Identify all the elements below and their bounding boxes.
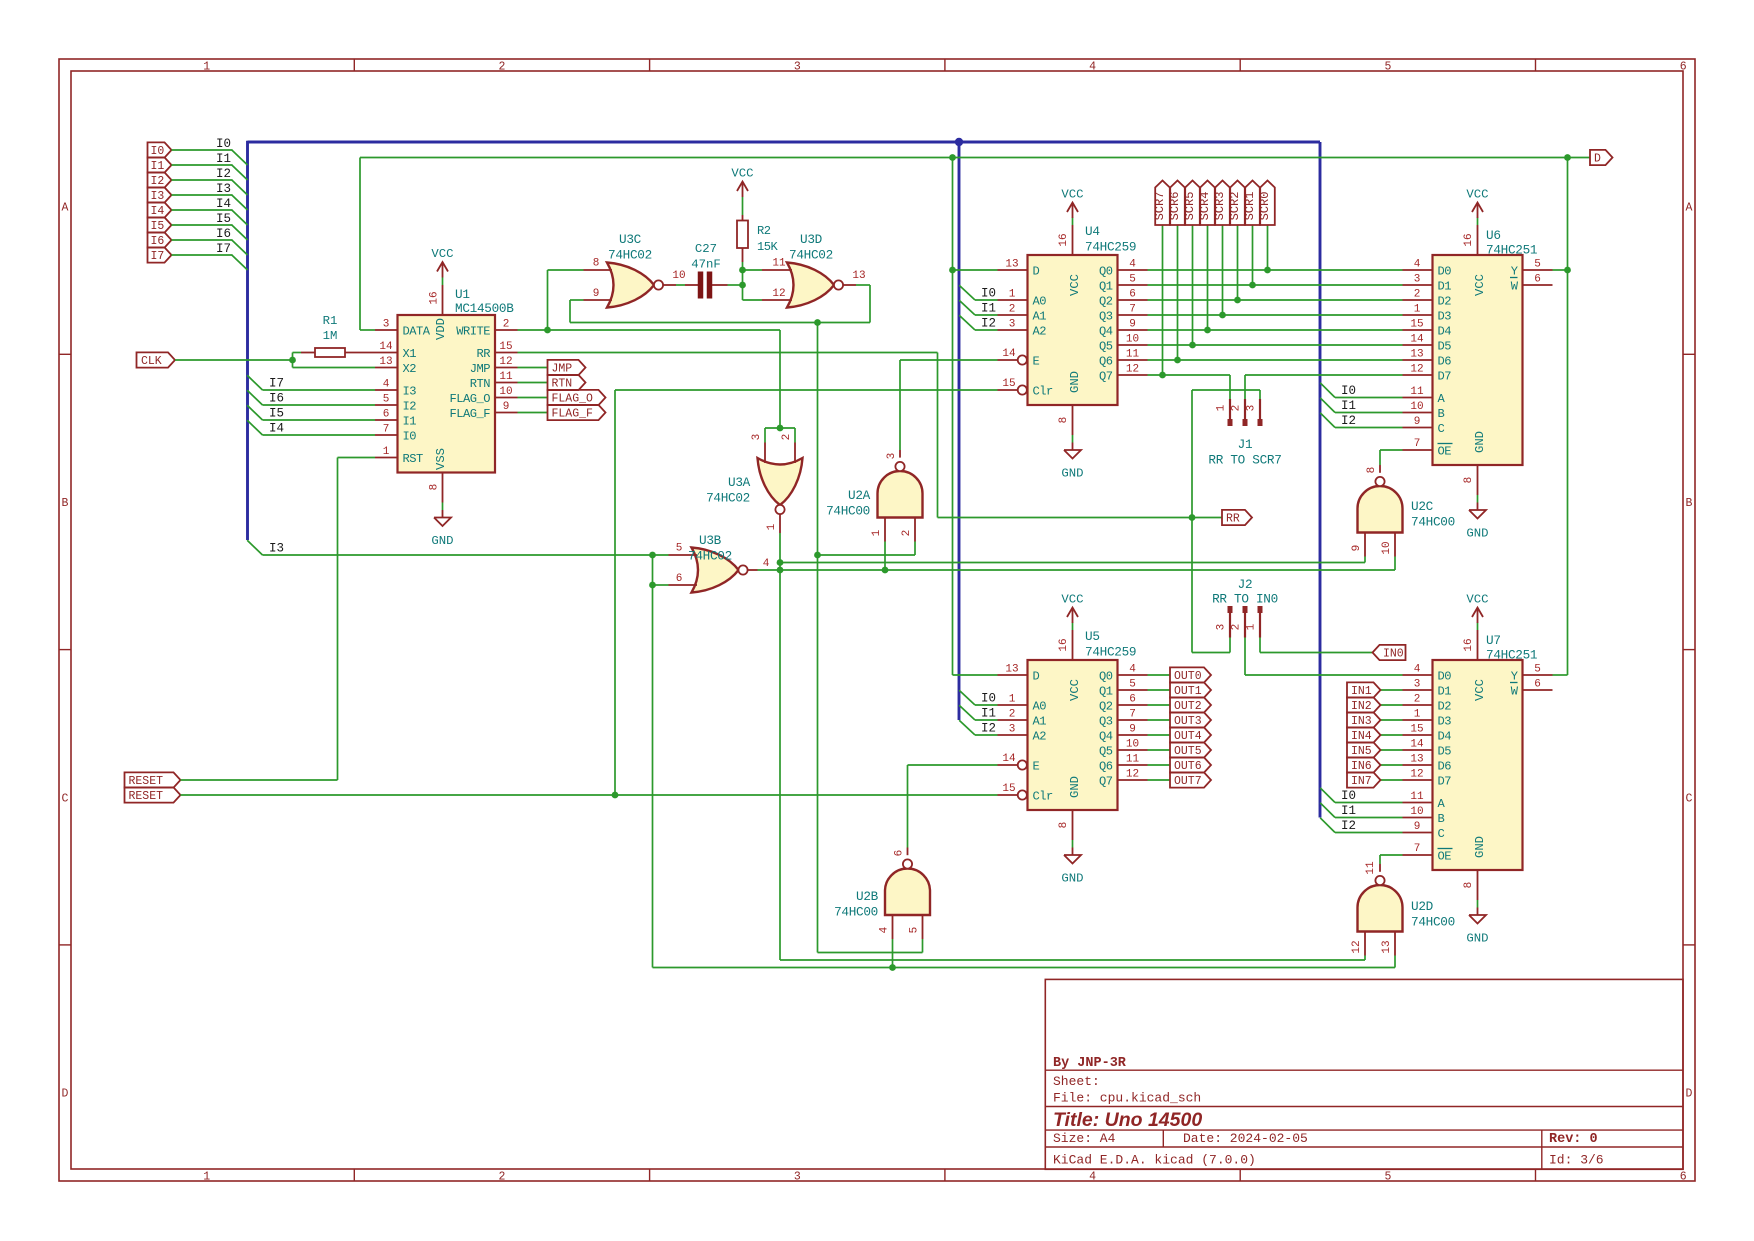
wire IN1 [1381,689,1403,691]
capacitor C27 [676,272,743,299]
wire bus tap U7 I0 [1320,788,1402,803]
svg-text:D3: D3 [1438,309,1452,323]
svg-text:SCR1: SCR1 [1243,192,1257,221]
ic U7 pin 9 C [1403,821,1445,841]
label R2 [757,224,771,238]
svg-text:5: 5 [1534,259,1541,271]
svg-text:D6: D6 [1438,759,1452,773]
wire I0 to bus [172,150,248,165]
svg-text:6: 6 [1680,1171,1687,1184]
svg-text:5: 5 [676,543,683,555]
svg-text:4: 4 [1089,61,1096,74]
ic U6 pin 3 D1 [1403,274,1452,294]
junction U6.Y [1564,267,1571,274]
svg-text:74HC259: 74HC259 [1085,645,1136,660]
svg-text:J2: J2 [1238,577,1253,592]
svg-text:47nF: 47nF [691,258,721,272]
label 47nF [691,258,721,272]
svg-text:Q2: Q2 [1099,699,1113,713]
ic U1 pin 15 RR [476,341,517,361]
junction SCR6 tap [1249,282,1256,289]
ic U5 pin 13 D [998,664,1040,684]
svg-text:OUT2: OUT2 [1174,700,1202,713]
ic U7 pin 14 D5 [1403,739,1452,759]
svg-text:11: 11 [1410,386,1424,398]
svg-text:Q1: Q1 [1099,279,1113,293]
wire feedback [570,285,870,323]
wire CLK split [293,353,376,368]
svg-text:B: B [1438,407,1445,421]
svg-text:I6: I6 [269,392,284,406]
hierarchical label OUT7 [1170,772,1211,788]
svg-text:OE: OE [1438,849,1452,863]
svg-text:KiCad E.D.A. kicad (7.0.0): KiCad E.D.A. kicad (7.0.0) [1053,1153,1256,1168]
svg-text:D1: D1 [1438,279,1452,293]
ic U4 pin 14 E [998,348,1040,368]
svg-text:16: 16 [1058,638,1070,651]
svg-text:IN6: IN6 [1351,760,1372,773]
svg-text:4: 4 [383,379,390,391]
svg-text:DATA: DATA [403,324,431,338]
svg-text:SCR0: SCR0 [1258,192,1272,221]
svg-text:10: 10 [1126,739,1139,751]
ic U5 pin 5 Q1 [1099,679,1148,699]
svg-text:8: 8 [593,258,600,270]
svg-text:74HC251: 74HC251 [1486,648,1537,663]
hierarchical label FLAG_O [548,390,606,406]
svg-text:15K: 15K [757,240,779,254]
svg-text:JMP: JMP [470,362,491,376]
svg-text:I5: I5 [269,407,284,421]
svg-text:4: 4 [1089,1171,1096,1184]
svg-text:10: 10 [1410,401,1423,413]
svg-text:4: 4 [1414,259,1421,271]
ic U5 pin 16 VCC [1058,630,1082,701]
svg-text:7: 7 [383,424,390,436]
svg-text:I2: I2 [216,167,231,181]
svg-text:3: 3 [383,319,390,331]
net label I4 [216,197,231,211]
ic U6 pin 13 D6 [1403,349,1452,369]
wire IN6 [1381,764,1403,766]
svg-text:U2C: U2C [1411,499,1434,514]
svg-text:I2: I2 [981,317,996,331]
svg-text:U2B: U2B [856,889,879,904]
power VCC R2 [731,167,753,198]
svg-text:8: 8 [1058,417,1070,424]
svg-text:I0: I0 [1341,384,1356,398]
ic U5 pin 7 Q3 [1099,709,1148,729]
refdes U7 [1486,633,1501,648]
svg-text:10: 10 [1381,541,1393,554]
net label I0 [216,137,231,151]
svg-text:6: 6 [676,573,683,585]
net label U6 I1 [1341,399,1356,413]
hierarchical label I1 [148,157,172,173]
svg-text:I1: I1 [151,160,165,173]
svg-text:I1: I1 [403,414,417,428]
svg-text:VCC: VCC [431,247,453,261]
svg-text:1M: 1M [323,329,338,343]
svg-text:GND: GND [1466,932,1488,946]
ic U4 pin 9 Q4 [1099,319,1148,339]
wire bus tap I6 [247,390,375,405]
power VCC U4 [1061,188,1083,226]
bus left vertical [246,141,249,540]
svg-text:D5: D5 [1438,339,1452,353]
svg-text:13: 13 [1410,754,1423,766]
svg-text:13: 13 [1005,259,1018,271]
ic U7 pin 16 VCC [1463,630,1487,701]
net label I5 [216,212,231,226]
junction SCR7 tap [1264,267,1271,274]
wire rail I3 to U2D.13 [653,956,1396,968]
hierarchical label OUT4 [1170,727,1211,743]
svg-text:I1: I1 [1341,399,1356,413]
svg-text:4: 4 [1129,259,1136,271]
wire bus tap U7 I1 [1320,803,1402,818]
junction CLK [289,357,296,364]
svg-text:I3: I3 [216,182,231,196]
ic U1 pin 6 I1 [375,409,416,429]
ic U5 pin 3 A2 [998,724,1047,744]
hierarchical label SCR5 [1183,181,1200,226]
wire Clr riser [615,390,998,795]
ic U4 pin 7 Q3 [1099,304,1148,324]
value U5 74HC259 [1085,645,1136,660]
wire WRITE to U3C.8 [548,270,584,330]
svg-text:Q6: Q6 [1099,354,1113,368]
resistor R1 1M [301,314,375,357]
svg-text:74HC00: 74HC00 [1411,515,1455,530]
svg-text:74HC259: 74HC259 [1085,240,1136,255]
svg-text:GND: GND [1061,872,1083,886]
net label U5 I1 [981,707,996,721]
power GND U4 [1061,435,1083,481]
ic U4 pin 10 Q5 [1099,334,1148,354]
wire IN3 [1381,719,1403,721]
svg-text:3: 3 [1414,679,1421,691]
hierarchical label CLK [137,352,176,368]
svg-text:Id: 3/6: Id: 3/6 [1549,1153,1604,1168]
hierarchical label I4 [148,202,172,218]
svg-text:9: 9 [1414,821,1421,833]
net label U5 I2 [981,722,996,736]
svg-text:A2: A2 [1033,324,1047,338]
junction DATA/U4 riser [949,154,956,161]
svg-text:9: 9 [1351,545,1363,552]
wire J2.1 to IN0 [1260,638,1373,653]
wire U2B.5 [922,939,924,953]
wire SCR1 [1252,225,1254,285]
ic U6 pin 15 D4 [1403,319,1452,339]
ic U6 pin 1 D3 [1403,304,1452,324]
ic U5 pin 6 Q2 [1099,694,1148,714]
svg-text:Sheet:: Sheet: [1053,1074,1100,1089]
ic U1 pin 8 VSS [429,448,449,502]
bus right vertical [1319,142,1322,818]
svg-text:5: 5 [1384,1171,1391,1184]
junction DATA/Y riser [1564,154,1571,161]
svg-text:6: 6 [894,850,906,857]
svg-text:U2D: U2D [1411,899,1433,914]
svg-text:D4: D4 [1438,324,1452,338]
junction U3B.6 [649,582,656,589]
svg-text:E: E [1033,759,1040,773]
ic U7 pin 8 GND [1463,836,1487,900]
ic U1 pin 12 JMP [470,356,518,376]
svg-text:D: D [1686,1088,1693,1101]
refdes U2B [856,889,879,904]
svg-text:15: 15 [1410,724,1423,736]
net label I6 [216,227,231,241]
svg-text:6: 6 [1534,679,1541,691]
refdes U2A [848,488,871,503]
nor gate U3C [584,258,686,308]
hierarchical label I7 [148,247,172,263]
junction R2/U3D.11 [739,267,746,274]
svg-text:D1: D1 [1438,684,1452,698]
ic U7 pin 4 D0 [1403,664,1452,684]
svg-text:D: D [1033,264,1040,278]
svg-text:D4: D4 [1438,729,1452,743]
svg-text:15: 15 [1002,783,1015,795]
ic U4 pin 3 A2 [998,319,1047,339]
hierarchical label I5 [148,217,172,233]
wire OUT5 [1148,749,1171,751]
power GND U7 [1466,900,1488,946]
wire bus tap U6 I2 [1320,413,1402,428]
ic U6 pin 7 OE [1403,438,1453,458]
wire feedback drop [818,323,923,953]
svg-text:1: 1 [203,1171,210,1184]
svg-text:2: 2 [1231,624,1243,631]
hierarchical label SCR2 [1228,181,1245,226]
svg-text:I7: I7 [151,250,165,263]
value U6 74HC251 [1486,243,1537,258]
svg-text:VCC: VCC [1061,593,1083,607]
svg-text:VCC: VCC [1061,188,1083,202]
wire bus tap I7 [247,375,375,390]
ic U1 pin 11 RTN [470,371,518,391]
wire bus tap U5 I1 [959,705,997,720]
svg-text:3: 3 [1009,724,1016,736]
svg-text:IN1: IN1 [1351,685,1372,698]
title block [1045,979,1683,1169]
value MC14500B [455,301,514,316]
wire SCR4 [1207,225,1209,330]
svg-text:OUT6: OUT6 [1174,760,1202,773]
wire U4.Q2 to U6.D2 [1148,299,1403,301]
svg-text:4: 4 [763,558,770,570]
junction SCR0 tap [1159,372,1166,379]
wire CLK [175,359,293,361]
svg-text:8: 8 [1058,822,1070,829]
svg-text:9: 9 [1129,724,1136,736]
value U4 74HC259 [1085,240,1136,255]
junction RESET/Clr [612,792,619,799]
wire I2 to bus [172,180,248,195]
junction U3B.5 [649,552,656,559]
svg-text:10: 10 [499,386,512,398]
svg-text:10: 10 [1126,334,1139,346]
svg-text:VCC: VCC [1068,274,1082,296]
value U3C 74HC02 [608,248,652,263]
svg-text:VCC: VCC [731,167,753,181]
ic U6 pin 5 Y [1511,259,1553,279]
ic U6 pin 8 GND [1463,431,1487,495]
svg-text:Q1: Q1 [1099,684,1113,698]
nor gate U3D [762,258,866,308]
wire U2B.4 [892,939,894,968]
wire JMP [518,367,548,369]
svg-text:Q0: Q0 [1099,264,1113,278]
svg-text:74HC00: 74HC00 [834,905,878,920]
wire IN4 [1381,734,1403,736]
ic U7 pin 7 OE [1403,843,1453,863]
svg-text:15: 15 [499,341,512,353]
hierarchical label OUT0 [1170,667,1211,683]
hierarchical label SCR4 [1198,181,1215,226]
svg-text:RR: RR [476,347,490,361]
ic U4 pin 16 VCC [1058,225,1082,296]
svg-text:FLAG_F: FLAG_F [449,407,490,421]
ic U6 74HC251 body [1433,255,1523,465]
svg-text:D0: D0 [1438,669,1452,683]
svg-text:VCC: VCC [1466,188,1488,202]
svg-text:I2: I2 [981,722,996,736]
svg-text:A1: A1 [1033,714,1047,728]
wire SCR3 [1222,225,1224,315]
svg-text:I1: I1 [1341,804,1356,818]
ic U1 pin 7 I0 [375,424,416,444]
ic U6 pin 6 W [1510,274,1553,294]
junction U3A out rail1 [777,559,784,566]
svg-text:8: 8 [429,484,441,491]
svg-text:GND: GND [1466,527,1488,541]
wire bus tap U4 I1 [959,300,997,315]
power VCC U5 [1061,593,1083,631]
svg-text:13: 13 [379,356,392,368]
svg-text:I2: I2 [1341,819,1356,833]
svg-text:74HC00: 74HC00 [1411,915,1455,930]
svg-text:Q0: Q0 [1099,669,1113,683]
svg-text:Q3: Q3 [1099,309,1113,323]
svg-text:U3C: U3C [619,232,642,247]
svg-text:X1: X1 [403,347,417,361]
svg-text:I5: I5 [216,212,231,226]
wire RESET to RST [181,458,376,781]
svg-text:U2A: U2A [848,488,871,503]
svg-text:U6: U6 [1486,228,1501,243]
svg-text:I1: I1 [216,152,231,166]
hierarchical label I3 [148,187,172,203]
svg-text:D0: D0 [1438,264,1452,278]
svg-text:R2: R2 [757,224,771,238]
refdes U3C [619,232,642,247]
svg-text:74HC00: 74HC00 [826,504,870,519]
svg-text:Q7: Q7 [1099,774,1113,788]
svg-text:8: 8 [1366,467,1378,474]
wire WRITE net [518,330,781,428]
svg-text:C: C [1438,827,1445,841]
power GND U1 [431,503,453,549]
wire I7 to bus [172,255,248,270]
svg-text:2: 2 [503,319,510,331]
svg-text:VCC: VCC [1068,679,1082,701]
hierarchical label IN1 [1347,682,1381,698]
svg-text:I3: I3 [151,190,165,203]
hierarchical label IN3 [1347,712,1381,728]
svg-text:3: 3 [751,434,763,441]
wire OUT2 [1148,704,1171,706]
svg-text:OUT5: OUT5 [1174,745,1202,758]
svg-text:3: 3 [886,453,898,460]
wire bus tap U6 I1 [1320,398,1402,413]
svg-text:I1: I1 [981,707,996,721]
svg-text:Clr: Clr [1033,789,1054,803]
svg-text:6: 6 [1129,694,1136,706]
ic U5 pin 8 GND [1058,776,1082,840]
wire J2.3 to RR [1192,518,1230,653]
svg-text:D: D [1594,153,1601,166]
wire U2A.1 [884,542,886,571]
value J2 RR TO IN0 [1212,592,1278,607]
svg-text:U3B: U3B [699,533,722,548]
ic U5 pin 10 Q5 [1099,739,1148,759]
svg-text:D5: D5 [1438,744,1452,758]
label 15K [757,240,779,254]
wire I3 to U3B [247,540,668,555]
value U3B 74HC02 [688,549,732,564]
net label I3 [269,542,284,556]
wire U2B out to U5.E [908,765,998,848]
wire U6.Y riser [1553,158,1568,676]
resistor R2 15K [737,197,748,270]
value U2C 74HC00 [1411,515,1455,530]
connector J1 [1216,399,1263,426]
net label I7 [269,377,284,391]
svg-text:C: C [62,792,69,805]
hierarchical label FLAG_F [548,405,606,421]
ic U1 pin 1 RST [375,446,423,466]
wire U5.D [953,674,998,676]
ic U4 pin 1 A0 [998,289,1047,309]
nand gate U2D [1351,861,1403,955]
hierarchical label I6 [148,232,172,248]
svg-text:FLAG_O: FLAG_O [449,392,490,406]
net label U7 I1 [1341,804,1356,818]
wire bus tap U4 I0 [959,285,997,300]
wire I1 to bus [172,165,248,180]
ic U5 pin 9 Q4 [1099,724,1148,744]
svg-text:12: 12 [1126,364,1139,376]
refdes J1 [1238,437,1253,452]
value U2D 74HC00 [1411,915,1455,930]
wire SCR2 [1237,225,1239,300]
svg-text:A2: A2 [1033,729,1047,743]
svg-text:9: 9 [593,288,600,300]
svg-text:CLK: CLK [141,355,162,368]
svg-text:16: 16 [1058,233,1070,246]
svg-text:9: 9 [1129,319,1136,331]
svg-text:6: 6 [1534,274,1541,286]
junction SCR4 tap [1219,312,1226,319]
svg-text:6: 6 [383,409,390,421]
junction U2A.1 on rail [882,567,889,574]
junction U2B.4 rail [889,964,896,971]
svg-text:U7: U7 [1486,633,1501,648]
